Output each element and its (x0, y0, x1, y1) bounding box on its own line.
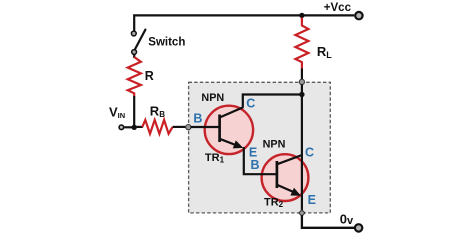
pin label E TR1 (249, 146, 257, 160)
terminal VIN (119, 125, 134, 130)
svg-text:C: C (305, 146, 314, 160)
label RB (150, 103, 165, 119)
node base entry (gray, on box edge) (186, 125, 191, 130)
terminal 0v (355, 224, 362, 231)
svg-text:+Vcc: +Vcc (324, 2, 352, 14)
svg-text:R: R (145, 69, 154, 83)
transistor TR2 internals (277, 155, 302, 196)
transistor TR2 (262, 154, 309, 201)
transistor TR1 (205, 106, 253, 154)
wire box entry to collector node and down to TR2 (301, 84, 303, 213)
wire R to Vin node (133, 96, 135, 127)
resistor R (128, 57, 141, 97)
wire TR2 emitter to 0v (302, 215, 354, 228)
svg-text:RL: RL (317, 44, 332, 60)
wire base node to TR1 base (191, 126, 220, 128)
wire switch to resistor R (133, 54, 135, 58)
resistor RL (295, 18, 308, 70)
wire RL to box entry node (301, 69, 303, 81)
resistor RB (142, 120, 172, 134)
label R (145, 69, 154, 83)
label Switch (148, 37, 185, 49)
node box exit (gray diamond, on box bottom edge) (299, 210, 305, 216)
label TR1 (205, 152, 225, 165)
terminal +Vcc (355, 12, 362, 19)
node Vin junction (132, 125, 137, 130)
wire TR1 collector to collector node (243, 95, 302, 108)
wire Vin node to RB (134, 126, 143, 128)
label VIN (109, 104, 125, 120)
label +Vcc (324, 2, 352, 14)
svg-text:0v: 0v (340, 211, 354, 227)
Darlington pair boundary box (189, 82, 331, 213)
svg-text:E: E (308, 193, 316, 207)
node RL box entry (gray, on box edge) (299, 79, 304, 84)
pin label B TR2 (251, 158, 260, 172)
node collector junction (299, 92, 304, 97)
svg-text:Switch: Switch (148, 37, 185, 49)
label NPN TR1 (201, 92, 224, 104)
pin label C TR1 (246, 97, 255, 111)
svg-text:B: B (193, 111, 202, 125)
switch S1 (131, 30, 145, 55)
wire TR1 emitter to TR2 base (244, 147, 277, 174)
pin label C TR2 (305, 146, 314, 160)
svg-text:VIN: VIN (109, 104, 125, 120)
pin label E TR2 (308, 193, 316, 207)
pin label B TR1 (193, 111, 202, 125)
svg-text:RB: RB (150, 103, 165, 119)
svg-text:C: C (246, 97, 255, 111)
node rail junction (299, 13, 304, 18)
label RL (317, 44, 332, 60)
svg-text:NPN: NPN (263, 139, 286, 151)
wire top rail (134, 15, 354, 31)
label 0v (340, 211, 354, 227)
label NPN TR2 (263, 139, 286, 151)
transistor TR1 internals (220, 107, 244, 148)
wire RB to base node (173, 126, 186, 128)
label TR2 (264, 197, 284, 210)
svg-text:NPN: NPN (201, 92, 224, 104)
wire rail junction to RL (301, 15, 303, 18)
svg-text:B: B (251, 158, 260, 172)
